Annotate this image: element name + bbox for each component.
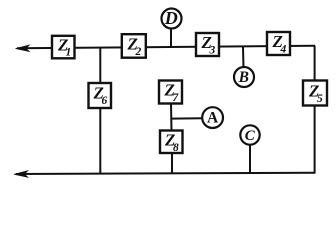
ammeter A	[202, 107, 223, 128]
wire Z7-Z8 connector	[170, 103, 173, 131]
impedance Z4	[267, 32, 290, 56]
svg-text:D: D	[164, 8, 178, 28]
impedance Z6	[89, 83, 112, 108]
wire Z8 to bottom rail	[171, 152, 173, 174]
impedance Z1	[52, 36, 75, 59]
svg-text:2: 2	[135, 46, 142, 58]
wire stub to B	[242, 47, 245, 69]
wire Z6 branch vertical	[99, 47, 101, 174]
impedance Z5	[303, 81, 327, 106]
wire stub C to bottom rail	[249, 144, 251, 174]
impedance Z3	[196, 33, 219, 57]
wire branch to A	[171, 117, 203, 119]
svg-text:8: 8	[173, 142, 179, 154]
svg-text:A: A	[207, 109, 219, 126]
impedance Z8	[160, 131, 183, 155]
svg-text:3: 3	[209, 45, 216, 57]
node C	[240, 125, 259, 144]
wire top rail	[17, 46, 315, 49]
wire stub to D	[170, 27, 172, 47]
wire bottom rail	[16, 173, 315, 174]
svg-text:1: 1	[66, 47, 72, 59]
impedance Z7	[159, 81, 182, 105]
impedance Z2	[122, 34, 146, 58]
wire right vertical	[314, 46, 316, 174]
arrow top-left	[16, 45, 30, 52]
node B	[234, 67, 254, 87]
svg-text:6: 6	[102, 95, 108, 107]
node D	[162, 8, 182, 28]
svg-text:C: C	[245, 128, 256, 144]
svg-text:4: 4	[280, 44, 287, 56]
arrow bottom-left	[14, 171, 28, 178]
svg-text:B: B	[238, 69, 249, 86]
svg-text:5: 5	[317, 93, 323, 105]
